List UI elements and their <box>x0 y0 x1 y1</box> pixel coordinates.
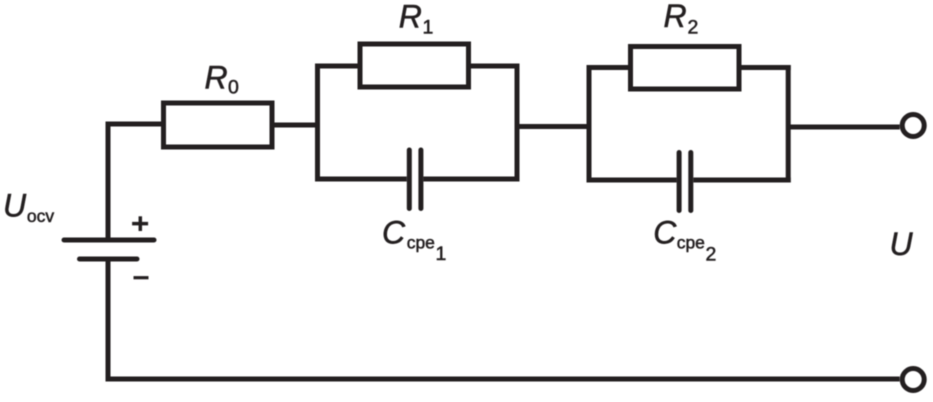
wire: battery negative lead and bottom return wire <box>108 258 900 379</box>
svg-text:2: 2 <box>688 17 699 39</box>
wire: block2 right vertical <box>786 65 791 183</box>
wire: block1 top rail <box>315 64 520 69</box>
battery U_ocv positive plate <box>64 238 154 243</box>
battery U_ocv negative plate <box>80 257 138 262</box>
svg-text:R: R <box>664 0 687 34</box>
svg-text:cpe: cpe <box>677 233 705 253</box>
resistor R1 body <box>360 44 469 87</box>
capacitor C_cpe2 right plate <box>688 153 693 211</box>
wire: battery positive lead up to series node <box>108 124 161 240</box>
svg-text:0: 0 <box>228 77 239 99</box>
svg-text:C: C <box>382 215 406 251</box>
wire: block2 left vertical <box>587 65 592 183</box>
wire: node B between block1 and block2 <box>517 124 592 129</box>
svg-text:ocv: ocv <box>27 206 54 226</box>
svg-text:1: 1 <box>423 17 434 39</box>
svg-text:C: C <box>653 215 677 251</box>
capacitor C_cpe1 right plate <box>418 150 423 209</box>
wire: block2 to top output terminal <box>788 125 900 130</box>
wire: block2 bottom rail left segment <box>587 178 677 183</box>
terminal: bottom output <box>902 369 924 391</box>
svg-text:R: R <box>205 60 228 96</box>
resistor R2 body <box>631 47 740 90</box>
wire: block2 top rail <box>587 65 791 70</box>
capacitor C_cpe2 left plate <box>677 153 682 211</box>
svg-text:cpe: cpe <box>407 233 435 253</box>
battery plus polarity mark <box>132 216 148 231</box>
svg-text:U: U <box>890 226 914 262</box>
svg-text:U: U <box>3 188 27 224</box>
wire: R0 to node A <box>275 123 321 128</box>
capacitor C_cpe1 left plate <box>407 150 412 209</box>
svg-text:1: 1 <box>436 243 447 265</box>
wire: block1 right vertical <box>515 64 520 182</box>
wire: block1 left vertical <box>315 64 320 182</box>
resistor R0 body <box>164 103 273 147</box>
wire: block1 bottom rail right segment <box>423 177 519 182</box>
svg-text:R: R <box>399 0 422 34</box>
battery minus polarity mark <box>134 276 149 279</box>
wire: block1 bottom rail left segment <box>315 177 407 182</box>
wire: block2 bottom rail right segment <box>693 178 790 183</box>
svg-text:2: 2 <box>706 243 717 265</box>
terminal: top output <box>902 115 924 137</box>
